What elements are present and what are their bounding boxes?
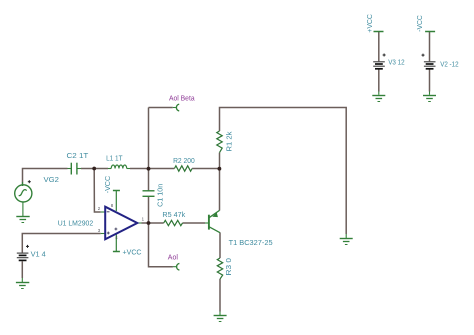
svg-text:1: 1 [142, 217, 145, 222]
svg-text:R2 200: R2 200 [173, 158, 195, 165]
svg-text:VG2: VG2 [44, 177, 60, 184]
svg-text:V2 -12: V2 -12 [440, 61, 458, 68]
svg-text:R3 0: R3 0 [226, 258, 233, 276]
svg-text:L1 1T: L1 1T [106, 155, 123, 162]
svg-text:V1 4: V1 4 [31, 252, 46, 259]
svg-text:+VCC: +VCC [367, 14, 374, 33]
svg-text:Aol: Aol [168, 254, 179, 261]
svg-text:3: 3 [98, 228, 101, 233]
svg-text:R1 2k: R1 2k [226, 131, 233, 152]
svg-text:T1 BC327-25: T1 BC327-25 [229, 240, 273, 247]
svg-text:8: 8 [111, 203, 114, 208]
svg-text:C1 10n: C1 10n [157, 184, 164, 207]
svg-text:V3 12: V3 12 [388, 60, 404, 67]
svg-text:+VCC: +VCC [123, 250, 142, 257]
svg-text:-VCC: -VCC [105, 176, 112, 193]
svg-text:Aol Beta: Aol Beta [169, 96, 195, 103]
svg-text:U1 LM2902: U1 LM2902 [58, 220, 94, 227]
svg-text:-VCC: -VCC [417, 15, 424, 32]
svg-text:4: 4 [115, 235, 118, 240]
svg-text:R5 47k: R5 47k [162, 212, 185, 219]
svg-text:C2 1T: C2 1T [67, 153, 90, 160]
svg-text:2: 2 [98, 206, 101, 211]
